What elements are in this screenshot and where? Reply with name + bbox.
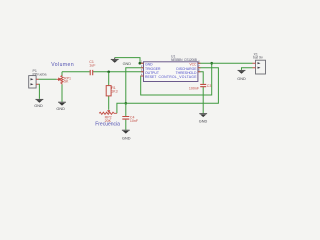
svg-text:GND: GND <box>56 107 65 111</box>
wire GND symbol to U1 GND pin <box>115 58 144 64</box>
capacitor C1 <box>90 70 93 75</box>
svg-text:Frecuencia: Frecuencia <box>95 122 120 128</box>
wire C4 top lead <box>125 103 127 116</box>
svg-text:100nF: 100nF <box>189 87 200 91</box>
svg-text:NE555N_CS1206B: NE555N_CS1206B <box>171 58 198 62</box>
svg-text:GND: GND <box>123 62 132 66</box>
wire OUTPUT net: RP1 top to C1 left plate <box>62 72 90 76</box>
wire P1 pin2 to ground <box>38 84 41 99</box>
svg-text:GND: GND <box>34 104 43 108</box>
ground under C3 <box>199 114 208 124</box>
wire RESET to VCC line <box>141 63 212 95</box>
svg-text:GND: GND <box>199 119 208 123</box>
capacitor C4 <box>122 117 129 120</box>
svg-text:5K: 5K <box>64 80 69 84</box>
wire C3 bottom to ground <box>202 87 204 113</box>
capacitor C3 <box>200 84 206 86</box>
ground at X1 pin2 <box>237 70 246 81</box>
potentiometer RP1 <box>57 76 64 85</box>
svg-text:GND: GND <box>122 137 131 141</box>
ground under RP1 <box>56 102 66 111</box>
wire R1 top lead <box>108 72 110 86</box>
svg-text:Volumen: Volumen <box>51 62 74 68</box>
junction at U1 GND pin <box>139 62 142 65</box>
svg-text:1uF: 1uF <box>89 63 96 67</box>
svg-text:VCC: VCC <box>189 62 197 66</box>
junction TRIGGER/RP2/C4 node <box>125 102 128 105</box>
resistor R1 <box>106 86 111 96</box>
svg-text:1K3: 1K3 <box>111 89 117 93</box>
svg-text:C3: C3 <box>207 84 212 88</box>
svg-text:CONTROL_VOLTAGE: CONTROL_VOLTAGE <box>159 75 198 79</box>
wire DISCHARGE loop to RP2 right end <box>117 68 218 114</box>
wire VCC to X1 pin1 <box>198 62 253 64</box>
wire RP1 bottom to ground <box>61 85 63 102</box>
wire X1 pin2 to ground <box>242 68 253 70</box>
wire TRIGGER to bottom node <box>126 68 144 104</box>
ground under P1 <box>34 99 43 108</box>
svg-text:RESET: RESET <box>145 75 156 79</box>
junction R1/OUTPUT <box>107 71 110 74</box>
svg-text:PPrueba: PPrueba <box>33 73 47 77</box>
wire P1 pin1 to RP1 wiper arrow <box>39 78 57 80</box>
op-amp U1 NE555N box <box>141 62 200 82</box>
ground symbol at U1 GND pin net <box>111 58 119 63</box>
svg-text:10nF: 10nF <box>130 119 139 123</box>
ground under C4 <box>122 130 131 140</box>
wire R1 bottom to RP2 wiper <box>108 96 110 110</box>
connector P1 <box>29 76 39 88</box>
wire OUTPUT net: C1 right plate to U1 OUTPUT pin <box>93 71 144 73</box>
connector X1 <box>253 60 266 74</box>
potentiometer RP2 <box>99 110 117 114</box>
svg-text:GND: GND <box>145 62 153 66</box>
pin numbers U1 <box>141 61 200 77</box>
wire C4 bottom to ground <box>125 120 127 130</box>
svg-text:GND: GND <box>237 77 246 81</box>
svg-text:bat 9v: bat 9v <box>253 56 263 60</box>
wire THRESHOLD to C3 top <box>198 72 203 84</box>
junction RESET/VCC <box>210 62 213 65</box>
